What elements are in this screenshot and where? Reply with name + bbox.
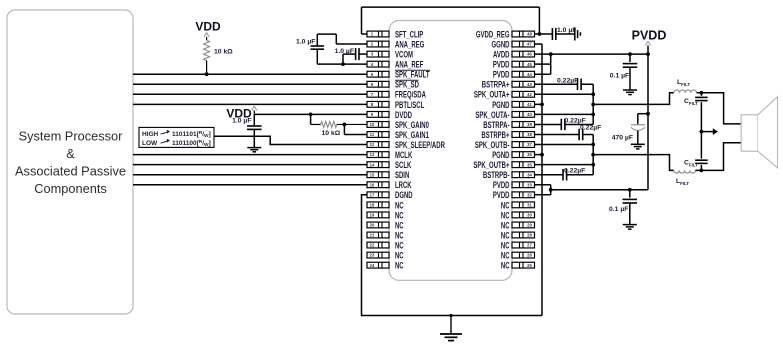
svg-text:PVDD: PVDD	[493, 60, 510, 70]
svg-text:SPK_SLEEP/ADR: SPK_SLEEP/ADR	[395, 140, 445, 150]
svg-text:SPK_OUTA-: SPK_OUTA-	[475, 110, 509, 120]
svg-text:40: 40	[527, 112, 532, 117]
svg-text:48: 48	[527, 32, 532, 37]
svg-text:1.0 µF: 1.0 µF	[232, 118, 251, 125]
svg-text:23: 23	[370, 253, 375, 258]
svg-text:AVDD: AVDD	[493, 50, 510, 60]
svg-text:MCLK: MCLK	[395, 150, 413, 160]
svg-text:22: 22	[370, 243, 375, 248]
svg-text:LOW: LOW	[142, 140, 158, 147]
svg-text:ANA_REF: ANA_REF	[395, 60, 424, 70]
svg-text:NC: NC	[395, 230, 404, 240]
svg-text:VCOM: VCOM	[395, 50, 413, 60]
svg-text:GGND: GGND	[492, 39, 510, 49]
svg-text:ANA_REG: ANA_REG	[395, 39, 424, 49]
svg-text:42: 42	[527, 92, 532, 97]
svg-text:26: 26	[527, 253, 532, 258]
svg-text:NC: NC	[501, 240, 510, 250]
svg-text:Components: Components	[34, 181, 107, 196]
svg-text:NC: NC	[395, 261, 404, 271]
svg-text:BSTRPA-: BSTRPA-	[483, 120, 509, 130]
svg-text:NC: NC	[501, 230, 510, 240]
svg-text:14: 14	[370, 162, 375, 167]
svg-text:PVDD: PVDD	[493, 70, 510, 80]
svg-text:NC: NC	[395, 240, 404, 250]
svg-text:VDD: VDD	[195, 20, 221, 34]
svg-text:35: 35	[527, 162, 532, 167]
svg-text:DGND: DGND	[395, 190, 413, 200]
svg-text:18: 18	[370, 202, 375, 207]
svg-text:NC: NC	[395, 200, 404, 210]
svg-text:13: 13	[370, 152, 375, 157]
svg-text:DVDD: DVDD	[395, 110, 412, 120]
svg-text:LRCK: LRCK	[395, 180, 412, 190]
svg-text:NC: NC	[501, 261, 510, 271]
svg-text:SPK_OUTB-: SPK_OUTB-	[475, 140, 510, 150]
svg-text:27: 27	[527, 243, 532, 248]
svg-text:30: 30	[527, 213, 532, 218]
svg-text:43: 43	[527, 82, 532, 87]
svg-text:NC: NC	[395, 210, 404, 220]
svg-text:NC: NC	[501, 220, 510, 230]
svg-text:NC: NC	[395, 220, 404, 230]
svg-text:37: 37	[527, 142, 532, 147]
svg-text:34: 34	[527, 172, 532, 177]
svg-text:NC: NC	[501, 200, 510, 210]
svg-text:SFT_CLIP: SFT_CLIP	[395, 29, 423, 39]
svg-text:0.22µF: 0.22µF	[580, 124, 601, 131]
svg-text:11: 11	[370, 132, 375, 137]
svg-text:46: 46	[527, 52, 532, 57]
svg-text:38: 38	[527, 132, 532, 137]
svg-text:1.0 µF: 1.0 µF	[335, 48, 354, 55]
svg-text:17: 17	[370, 192, 375, 197]
svg-text:19: 19	[370, 213, 375, 218]
svg-text:470 µF: 470 µF	[612, 135, 633, 142]
svg-text:BSTRPB-: BSTRPB-	[483, 170, 510, 180]
svg-text:10: 10	[370, 122, 375, 127]
svg-text:12: 12	[370, 142, 375, 147]
svg-text:PGND: PGND	[492, 100, 509, 110]
svg-text:NC: NC	[501, 251, 510, 261]
svg-text:SPK_GAIN1: SPK_GAIN1	[395, 130, 429, 140]
svg-text:System Processor: System Processor	[19, 129, 124, 144]
svg-text:PVDD: PVDD	[493, 180, 510, 190]
svg-text:&: &	[66, 146, 75, 161]
svg-text:16: 16	[370, 182, 375, 187]
svg-text:Associated Passive: Associated Passive	[15, 164, 126, 179]
svg-text:45: 45	[527, 62, 532, 67]
svg-text:FREQ/SDA: FREQ/SDA	[395, 90, 426, 100]
svg-text:PVDD: PVDD	[493, 190, 510, 200]
svg-text:10 kΩ: 10 kΩ	[322, 130, 341, 137]
svg-text:PGND: PGND	[492, 150, 509, 160]
svg-text:BSTRPB+: BSTRPB+	[481, 130, 509, 140]
svg-text:15: 15	[370, 172, 375, 177]
svg-text:33: 33	[527, 182, 532, 187]
svg-text:44: 44	[527, 72, 532, 77]
svg-text:HIGH: HIGH	[142, 131, 159, 138]
svg-text:0.22µF: 0.22µF	[557, 77, 578, 84]
svg-text:0.22µF: 0.22µF	[564, 167, 585, 174]
svg-text:SPK_FAULT: SPK_FAULT	[395, 70, 430, 80]
svg-text:SCLK: SCLK	[395, 160, 412, 170]
svg-text:28: 28	[527, 233, 532, 238]
svg-text:SPK_GAIN0: SPK_GAIN0	[395, 120, 429, 130]
svg-text:SPK_OUTB+: SPK_OUTB+	[473, 160, 509, 170]
svg-text:SDIN: SDIN	[395, 170, 409, 180]
svg-text:29: 29	[527, 223, 532, 228]
svg-text:NC: NC	[501, 210, 510, 220]
svg-text:31: 31	[527, 202, 532, 207]
svg-text:0.1 µF: 0.1 µF	[609, 206, 628, 213]
svg-text:25: 25	[527, 263, 532, 268]
svg-text:47: 47	[527, 42, 532, 47]
svg-text:1.0 µF: 1.0 µF	[296, 39, 315, 46]
svg-text:32: 32	[527, 192, 532, 197]
svg-text:SPK_SD: SPK_SD	[395, 80, 419, 90]
svg-text:36: 36	[527, 152, 532, 157]
svg-text:0.1 µF: 0.1 µF	[610, 73, 629, 80]
svg-text:39: 39	[527, 122, 532, 127]
svg-text:PBTL/SCL: PBTL/SCL	[395, 100, 425, 110]
svg-text:21: 21	[370, 233, 375, 238]
svg-text:20: 20	[370, 223, 375, 228]
svg-text:SPK_OUTA+: SPK_OUTA+	[474, 90, 510, 100]
svg-text:1.0 µF: 1.0 µF	[557, 27, 576, 34]
svg-text:24: 24	[370, 263, 375, 268]
svg-text:GVDD_REG: GVDD_REG	[476, 29, 510, 39]
svg-text:10 kΩ: 10 kΩ	[214, 49, 233, 56]
svg-text:NC: NC	[395, 251, 404, 261]
svg-text:41: 41	[527, 102, 532, 107]
svg-text:BSTRPA+: BSTRPA+	[482, 80, 510, 90]
svg-text:PVDD: PVDD	[632, 29, 667, 43]
